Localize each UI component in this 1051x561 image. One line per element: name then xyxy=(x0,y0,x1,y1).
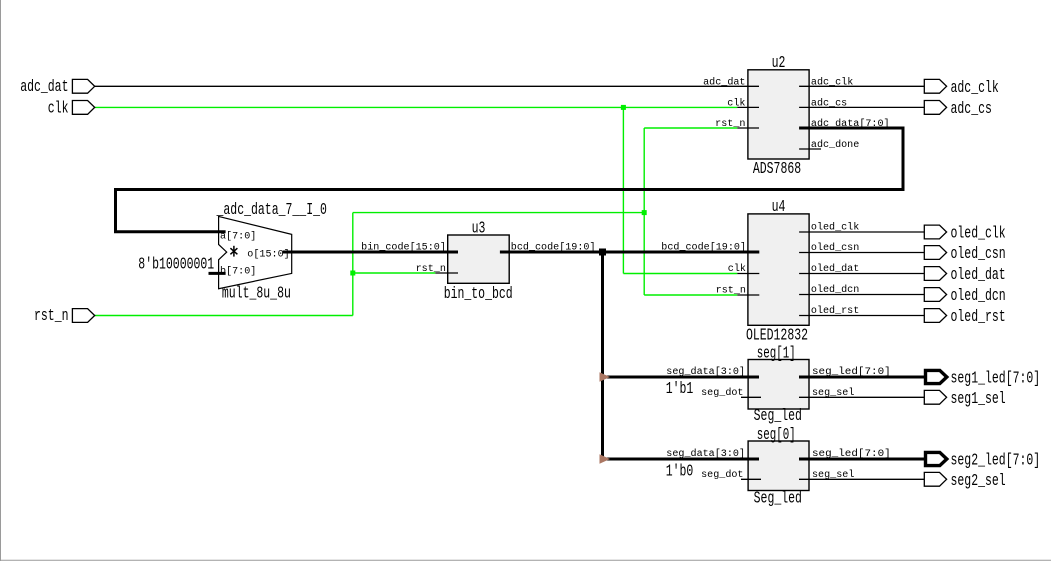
svg-text:seg_sel: seg_sel xyxy=(812,387,854,399)
input port rst_n xyxy=(72,309,94,323)
svg-text:rst_n: rst_n xyxy=(715,119,745,130)
wire clk net to u4 clk pin xyxy=(623,273,737,275)
wire clk net horizontal (port to u2 clk pin) xyxy=(95,106,738,108)
svg-text:seg_dot: seg_dot xyxy=(701,469,743,481)
wire seg_data[3:0] bus to seg[1] xyxy=(603,376,760,379)
block u2 ADS7868 xyxy=(748,70,809,159)
svg-text:adc_cs: adc_cs xyxy=(951,100,992,119)
svg-text:mult_8u_8u: mult_8u_8u xyxy=(222,285,291,304)
pin stub seg[1] seg_dot xyxy=(741,396,761,398)
svg-text:rst_n: rst_n xyxy=(416,264,446,275)
window bottom border xyxy=(0,559,1051,561)
wire rst_n net top horizontal xyxy=(353,212,644,214)
input port clk xyxy=(72,101,94,115)
wire oled_clk from u4 to port xyxy=(799,231,924,233)
block seg[0] Seg_led xyxy=(748,441,809,491)
output port adc_cs xyxy=(924,101,946,115)
svg-text:ADS7868: ADS7868 xyxy=(753,160,801,179)
svg-text:adc_clk: adc_clk xyxy=(951,79,999,98)
wire oled_dcn from u4 to port xyxy=(799,294,924,296)
svg-text:u4: u4 xyxy=(772,198,786,217)
svg-text:oled_clk: oled_clk xyxy=(951,225,1006,244)
svg-text:bcd_code[19:0]: bcd_code[19:0] xyxy=(511,242,596,254)
wire bcd_code[19:0] bus from u3 to u4 xyxy=(500,251,759,254)
pin stub u4 clk xyxy=(737,273,759,275)
wire seg1_led[7:0] bus to port xyxy=(799,376,926,379)
svg-text:rst_n: rst_n xyxy=(716,286,746,297)
block u3 bin_to_bcd xyxy=(448,235,510,283)
svg-text:seg_led[7:0]: seg_led[7:0] xyxy=(812,448,891,460)
pin stub u4 rst_n xyxy=(737,294,759,296)
svg-text:oled_dat: oled_dat xyxy=(951,266,1006,285)
svg-text:oled_csn: oled_csn xyxy=(811,242,859,254)
svg-text:seg_data[3:0]: seg_data[3:0] xyxy=(666,366,745,378)
svg-text:oled_dcn: oled_dcn xyxy=(811,284,859,296)
svg-text:o[15:0]: o[15:0] xyxy=(247,248,289,260)
svg-text:8'b10000001: 8'b10000001 xyxy=(138,256,214,275)
svg-text:seg2_sel: seg2_sel xyxy=(951,472,1006,491)
output port oled_dat xyxy=(924,267,946,281)
svg-text:clk: clk xyxy=(728,263,746,275)
node rst_n junction at riser xyxy=(350,271,355,276)
svg-text:seg2_led[7:0]: seg2_led[7:0] xyxy=(951,452,1041,471)
node clk junction xyxy=(621,105,626,110)
wire rst_n net to u2 rst_n pin xyxy=(644,127,737,129)
svg-text:adc_clk: adc_clk xyxy=(811,77,853,89)
pin stub u2 rst_n xyxy=(737,127,759,129)
svg-text:Seg_led: Seg_led xyxy=(754,407,802,426)
wire seg_data[3:0] bus to seg[0] xyxy=(603,458,760,461)
pin stub u3 rst_n xyxy=(435,272,458,274)
svg-text:adc_dat: adc_dat xyxy=(20,78,68,97)
wire rst_n net vertical at x644 xyxy=(643,128,645,295)
node rst_n junction at top xyxy=(642,210,647,215)
svg-text:b[7:0]: b[7:0] xyxy=(220,266,256,278)
svg-text:oled_dat: oled_dat xyxy=(811,263,859,275)
wire adc_data[7:0] bus from u2 to multiplier a input xyxy=(116,128,904,232)
block seg[1] Seg_led xyxy=(748,360,809,410)
wire seg2_led[7:0] bus to port xyxy=(799,458,926,461)
svg-text:bin_to_bcd: bin_to_bcd xyxy=(444,285,513,304)
svg-text:seg_data[3:0]: seg_data[3:0] xyxy=(666,448,745,460)
svg-text:seg[1]: seg[1] xyxy=(757,345,796,364)
wire oled_rst from u4 to port xyxy=(799,315,924,317)
svg-text:oled_dcn: oled_dcn xyxy=(951,287,1006,306)
svg-text:u2: u2 xyxy=(772,54,786,73)
svg-text:Seg_led: Seg_led xyxy=(754,490,802,509)
output port adc_clk xyxy=(924,79,946,93)
output port oled_dcn xyxy=(924,288,946,302)
svg-text:bcd_code[19:0]: bcd_code[19:0] xyxy=(661,242,746,254)
svg-text:seg1_led[7:0]: seg1_led[7:0] xyxy=(951,370,1041,389)
svg-text:1'b1: 1'b1 xyxy=(666,380,694,399)
svg-text:oled_rst: oled_rst xyxy=(951,308,1006,327)
pin stub u2 clk xyxy=(737,106,759,108)
svg-text:seg1_sel: seg1_sel xyxy=(951,390,1006,409)
wire bcd_code[19:0] vertical bus branch xyxy=(601,252,604,459)
multiply operator symbol xyxy=(230,246,237,257)
wire bin_code[15:0] bus from multiplier o to u3 xyxy=(283,251,458,254)
svg-text:seg_led[7:0]: seg_led[7:0] xyxy=(812,366,891,378)
wire seg1_sel to port xyxy=(799,396,924,398)
svg-text:adc_data[7:0]: adc_data[7:0] xyxy=(811,118,890,130)
svg-text:_adc_data_7__I_0: _adc_data_7__I_0 xyxy=(216,201,327,220)
wire rst_n net horizontal from port xyxy=(95,315,353,317)
output port oled_csn xyxy=(924,246,946,260)
svg-text:oled_clk: oled_clk xyxy=(811,222,859,234)
node bus tap arrow seg[0] xyxy=(600,454,611,463)
wire adc_cs from u2 to port xyxy=(799,106,924,108)
svg-text:OLED12832: OLED12832 xyxy=(746,326,808,345)
svg-text:a[7:0]: a[7:0] xyxy=(220,230,256,242)
output port seg1_sel xyxy=(924,390,946,404)
svg-text:1'b0: 1'b0 xyxy=(666,462,694,481)
wire rst_n net vertical riser xyxy=(352,213,354,316)
input port adc_dat xyxy=(72,79,94,93)
svg-text:clk: clk xyxy=(48,99,69,118)
pin stub u2 adc_done xyxy=(799,148,821,150)
node bus tap arrow seg[1] xyxy=(600,372,611,381)
window left border xyxy=(0,0,2,561)
wire seg2_sel to port xyxy=(799,478,924,480)
svg-text:clk: clk xyxy=(727,98,745,110)
wire adc_dat net (port to u2 pin) xyxy=(95,85,759,87)
svg-text:adc_dat: adc_dat xyxy=(703,77,745,89)
svg-text:adc_cs: adc_cs xyxy=(811,98,847,110)
svg-text:u3: u3 xyxy=(472,219,486,238)
svg-text:adc_done: adc_done xyxy=(811,139,859,151)
svg-text:rst_n: rst_n xyxy=(34,307,69,326)
wire oled_dat from u4 to port xyxy=(799,273,924,275)
svg-text:oled_csn: oled_csn xyxy=(951,245,1006,264)
multiplier mult_8u_8u adc_data_7__I_0 xyxy=(219,216,292,288)
output port oled_rst xyxy=(924,309,946,323)
svg-text:bin_code[15:0]: bin_code[15:0] xyxy=(361,242,446,254)
wire constant stub to multiplier b input xyxy=(209,272,226,275)
node bcd_code junction xyxy=(599,249,606,256)
svg-text:oled_rst: oled_rst xyxy=(811,305,859,317)
block u4 OLED12832 xyxy=(748,214,809,325)
svg-text:seg_sel: seg_sel xyxy=(812,469,854,481)
output port seg2_sel xyxy=(924,472,946,486)
wire clk net vertical branch xyxy=(622,107,624,273)
pin stub seg[0] seg_dot xyxy=(741,478,761,480)
output port seg2_led[7:0] (bold) xyxy=(926,452,947,465)
output port seg1_led[7:0] (bold) xyxy=(926,370,947,383)
output port oled_clk xyxy=(924,225,946,239)
svg-text:seg[0]: seg[0] xyxy=(757,426,796,445)
wire rst_n net to u4 rst_n pin xyxy=(644,294,737,296)
wire rst_n net branch to u3 rst_n pin xyxy=(353,272,436,274)
svg-text:seg_dot: seg_dot xyxy=(701,387,743,399)
wire oled_csn from u4 to port xyxy=(799,252,924,254)
wire adc_clk from u2 to port xyxy=(799,85,924,87)
